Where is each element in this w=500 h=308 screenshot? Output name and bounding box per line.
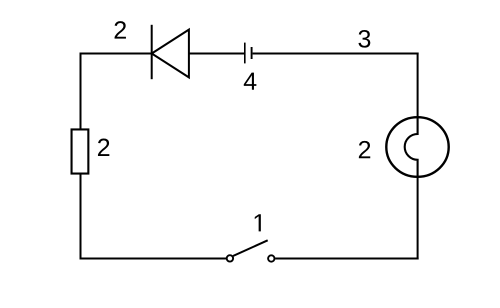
wire battery to top-right corner (node 3)	[253, 53, 419, 55]
switch S (component 1) left terminal circle	[227, 255, 233, 261]
lamp L (component 2) bulb outline	[386, 117, 448, 177]
wire bottom-left corner up to resistor	[80, 174, 82, 260]
wire top-left to diode	[80, 53, 152, 55]
wire resistor up to top-left corner	[80, 53, 82, 130]
wire bottom-right corner to switch right terminal	[275, 258, 418, 260]
switch S (component 1) lever	[233, 240, 268, 256]
label 1 (switch)	[255, 214, 261, 231]
diode D (component 2) triangle	[152, 30, 189, 78]
label 4 (battery)	[244, 73, 257, 90]
label 3 (wire)	[358, 30, 370, 48]
resistor R (component 2) body	[72, 129, 89, 173]
wire switch left terminal to bottom-left corner	[80, 258, 227, 260]
battery cell (component 4) short plate	[251, 47, 253, 59]
diode D (component 2) cathode bar	[151, 25, 153, 79]
switch S (component 1) right terminal circle	[268, 255, 274, 261]
battery cell (component 4) long plate	[244, 43, 246, 64]
label 2 (lamp)	[359, 141, 370, 158]
label 2 (diode)	[115, 21, 126, 38]
lamp filament: vertical lead and left half-circle bump	[405, 117, 418, 178]
wire lamp to bottom-right corner	[417, 177, 419, 260]
wire top-right corner down to lamp	[417, 53, 419, 118]
wire diode to battery	[189, 53, 245, 55]
label 2 (resistor)	[98, 139, 109, 156]
